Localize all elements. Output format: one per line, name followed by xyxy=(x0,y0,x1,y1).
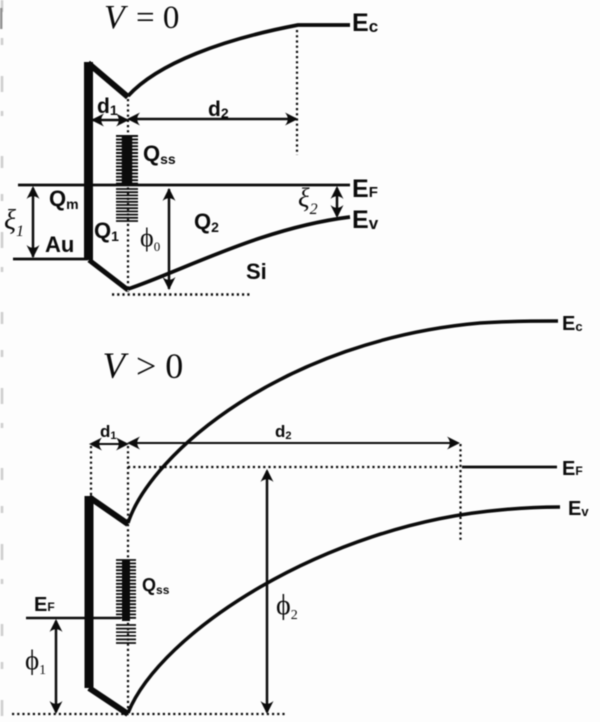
svg-text:Au: Au xyxy=(45,232,74,257)
svg-text:ϕ2: ϕ2 xyxy=(276,590,298,623)
Ev band curve xyxy=(128,217,350,289)
dotted vertical at d2 right end xyxy=(296,30,298,155)
svg-text:> 0: > 0 xyxy=(136,346,183,386)
Qss hatch above EF xyxy=(116,136,138,221)
EF left line xyxy=(26,617,121,620)
svg-text:ϕ1: ϕ1 xyxy=(25,645,46,677)
Ec slope from bar top to interface cusp xyxy=(88,63,128,97)
EF line xyxy=(18,184,350,187)
slope bar bottom to Ev cusp xyxy=(89,688,128,714)
svg-text:d2: d2 xyxy=(275,422,292,442)
slope bar bottom to Ev cusp xyxy=(89,260,128,290)
svg-text:Ev: Ev xyxy=(352,206,379,234)
dotted vertical at x=91 xyxy=(90,446,92,496)
dotted vertical at x=460 xyxy=(459,444,461,540)
bottom dotted baseline xyxy=(12,713,287,715)
svg-text:EF: EF xyxy=(34,594,55,616)
svg-text:ξ1: ξ1 xyxy=(4,205,24,240)
svg-text:Si: Si xyxy=(246,259,267,284)
phi0 arrow xyxy=(168,189,171,289)
dotted vertical at interface x=128 xyxy=(127,99,129,292)
scan smudge left edge xyxy=(1,0,4,722)
svg-text:d2: d2 xyxy=(208,98,229,121)
dotted EF level xyxy=(128,466,460,468)
svg-text:Ec: Ec xyxy=(562,313,583,335)
svg-text:d1: d1 xyxy=(97,95,118,118)
Qss hatch bottom xyxy=(116,560,136,643)
dotted vertical at x=128 xyxy=(127,446,129,712)
d2 arrow xyxy=(129,118,296,121)
metal bottom line xyxy=(13,258,88,261)
svg-text:Qss: Qss xyxy=(143,141,176,167)
d1 arrow bottom xyxy=(91,443,127,445)
svg-text:Ec: Ec xyxy=(352,9,378,37)
svg-text:EF: EF xyxy=(562,458,583,480)
xi2 arrow xyxy=(336,188,339,216)
svg-text:ϕ0: ϕ0 xyxy=(140,223,160,254)
svg-text:= 0: = 0 xyxy=(136,0,179,36)
svg-text:EF: EF xyxy=(352,175,378,203)
svg-text:Qss: Qss xyxy=(142,575,170,597)
svg-text:d1: d1 xyxy=(100,422,117,442)
svg-text:ξ2: ξ2 xyxy=(298,183,318,218)
Ec band curve xyxy=(128,25,350,96)
dotted base of well xyxy=(112,293,250,295)
phi2 arrow xyxy=(266,471,269,712)
svg-text:Q2: Q2 xyxy=(194,209,219,235)
metal bar (Au surface) xyxy=(84,62,93,260)
xi1 arrow xyxy=(32,188,35,257)
svg-text:Q1: Q1 xyxy=(94,218,119,244)
svg-text:Ev: Ev xyxy=(568,498,589,520)
svg-text:V: V xyxy=(104,0,129,36)
d1 arrow xyxy=(93,119,127,122)
Ec band curve xyxy=(128,321,558,523)
metal bar xyxy=(85,496,94,688)
d2 arrow bottom xyxy=(129,442,458,444)
Ec slope bar top to cusp xyxy=(89,497,128,524)
svg-text:V: V xyxy=(103,346,130,387)
svg-text:Qm: Qm xyxy=(49,186,79,212)
Ev band curve bottom xyxy=(128,507,560,713)
phi1 arrow xyxy=(55,621,58,712)
EF solid right xyxy=(462,466,557,469)
